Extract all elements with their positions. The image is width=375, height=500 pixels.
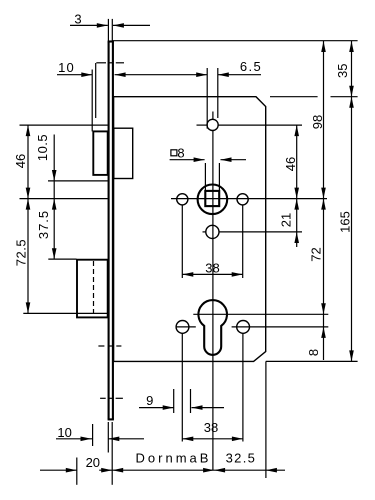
bottom 10 left extension <box>92 424 94 446</box>
case top extension line <box>270 96 358 98</box>
small hole axis extension line <box>203 231 303 233</box>
bolt top edge extension line <box>48 258 76 260</box>
square spindle hole 8mm <box>205 191 219 206</box>
faceplate bottom cap <box>108 418 114 420</box>
latch axis extension line left <box>20 124 108 126</box>
latch spring hole (top small circle) <box>207 119 218 130</box>
dim 9 right extension <box>190 389 192 413</box>
far right dimension chain 35 / 165 <box>335 41 354 361</box>
svg-text:10: 10 <box>57 425 71 440</box>
dimension 10 (latch protrusion) <box>57 60 92 77</box>
dimension 10 (bottom, bolt) <box>56 425 144 441</box>
euro profile cylinder hole <box>198 300 227 355</box>
square hole left extension line <box>204 163 206 192</box>
deadbolt center dashed line <box>93 261 95 317</box>
svg-text:10.5: 10.5 <box>35 134 50 161</box>
svg-text:38: 38 <box>205 261 219 276</box>
svg-text:165: 165 <box>338 211 353 233</box>
square hole right extension line <box>218 163 220 192</box>
faceplate (Stulp) left face line <box>108 41 110 419</box>
svg-text:46: 46 <box>13 154 28 168</box>
auxiliary line near latch <box>95 63 97 118</box>
dimension Dornmass (backset) <box>99 450 285 472</box>
svg-text:32.5: 32.5 <box>226 450 257 465</box>
left fixing hole at follower <box>177 194 188 205</box>
follower axis extension line left <box>20 198 108 200</box>
follower axis extension line right <box>171 198 327 200</box>
svg-text:35: 35 <box>335 64 350 78</box>
left dimension chain 46 / 72.5 <box>13 125 30 313</box>
svg-text:21: 21 <box>279 213 294 227</box>
dimension 38 (fixing holes at follower) <box>182 261 242 277</box>
mid 38 left extension <box>181 205 183 278</box>
faceplate rear extension to bottom chain <box>111 422 113 485</box>
faceplate screw hole center mark middle <box>98 345 121 347</box>
bottom 10 right extension (faceplate front) <box>107 422 109 453</box>
dimension 3 (faceplate thickness) <box>70 12 150 28</box>
bottom 38 left extension <box>181 333 183 441</box>
svg-text:46: 46 <box>283 157 298 171</box>
svg-text:8: 8 <box>177 146 184 161</box>
svg-text:10: 10 <box>58 60 75 75</box>
latch bolt head <box>93 131 107 175</box>
dimension 38 (lower fixing holes) <box>182 420 243 441</box>
svg-text:98: 98 <box>310 115 325 129</box>
latch tip extension line <box>91 70 93 132</box>
svg-text:37.5: 37.5 <box>36 210 51 239</box>
top extension line (faceplate top level) <box>112 40 358 42</box>
dimension square 8 <box>170 146 246 163</box>
right mid dimension chain 46 / 21 <box>279 125 300 247</box>
case right edge extension to bottom chain <box>265 361 267 478</box>
faceplate thickness extension left <box>107 19 109 41</box>
dimension 32.5 <box>214 450 277 472</box>
svg-text:8: 8 <box>306 349 321 356</box>
lock case outline <box>114 97 266 362</box>
lower left fixing hole <box>176 321 189 334</box>
lower fixing holes axis extension line <box>176 326 329 328</box>
case bottom extension line <box>266 360 358 362</box>
dimension 9 <box>139 393 224 410</box>
dia 6.5 right extension line <box>217 68 219 118</box>
mid 38 right extension <box>242 205 244 278</box>
faceplate right face line <box>112 41 114 419</box>
svg-text:9: 9 <box>146 393 153 408</box>
latch axis extension line right <box>197 124 303 126</box>
cylinder axis extension line left <box>23 312 107 314</box>
faceplate screw hole center mark top <box>96 62 124 64</box>
right dimension chain 98 / 72 / 8 <box>306 41 326 360</box>
svg-text:72.5: 72.5 <box>14 239 29 266</box>
right fixing hole at follower <box>237 194 248 205</box>
svg-text:DornmaB: DornmaB <box>136 450 212 465</box>
svg-text:38: 38 <box>204 420 218 435</box>
dim 20 left extension <box>76 458 78 485</box>
dimension 20 (bolt throw) <box>40 455 112 473</box>
faceplate thickness extension right <box>111 19 113 41</box>
faceplate screw hole center mark bottom <box>100 397 123 399</box>
lower right fixing hole <box>237 321 250 334</box>
dia 6.5 left extension line <box>206 68 208 129</box>
latch follower hole (circle) <box>198 185 228 215</box>
svg-text:3: 3 <box>74 12 81 27</box>
left dimension chain 10.5 / 37.5 <box>35 134 56 259</box>
latch lower edge extension line <box>48 180 108 182</box>
svg-text:72: 72 <box>309 247 324 261</box>
bottom 38 right extension <box>242 333 244 441</box>
svg-text:20: 20 <box>86 455 100 470</box>
faceplate top cap <box>108 40 114 42</box>
svg-text:6.5: 6.5 <box>240 59 262 74</box>
dim 9 left extension <box>173 389 175 413</box>
deadbolt head <box>77 260 108 318</box>
small hole below follower <box>206 225 219 238</box>
dimension 6.5 (hole dia) shared line <box>115 59 263 77</box>
latch guide box behind faceplate <box>114 128 133 178</box>
cylinder axis extension line right <box>193 313 328 315</box>
vertical center axis of lock <box>212 112 214 471</box>
